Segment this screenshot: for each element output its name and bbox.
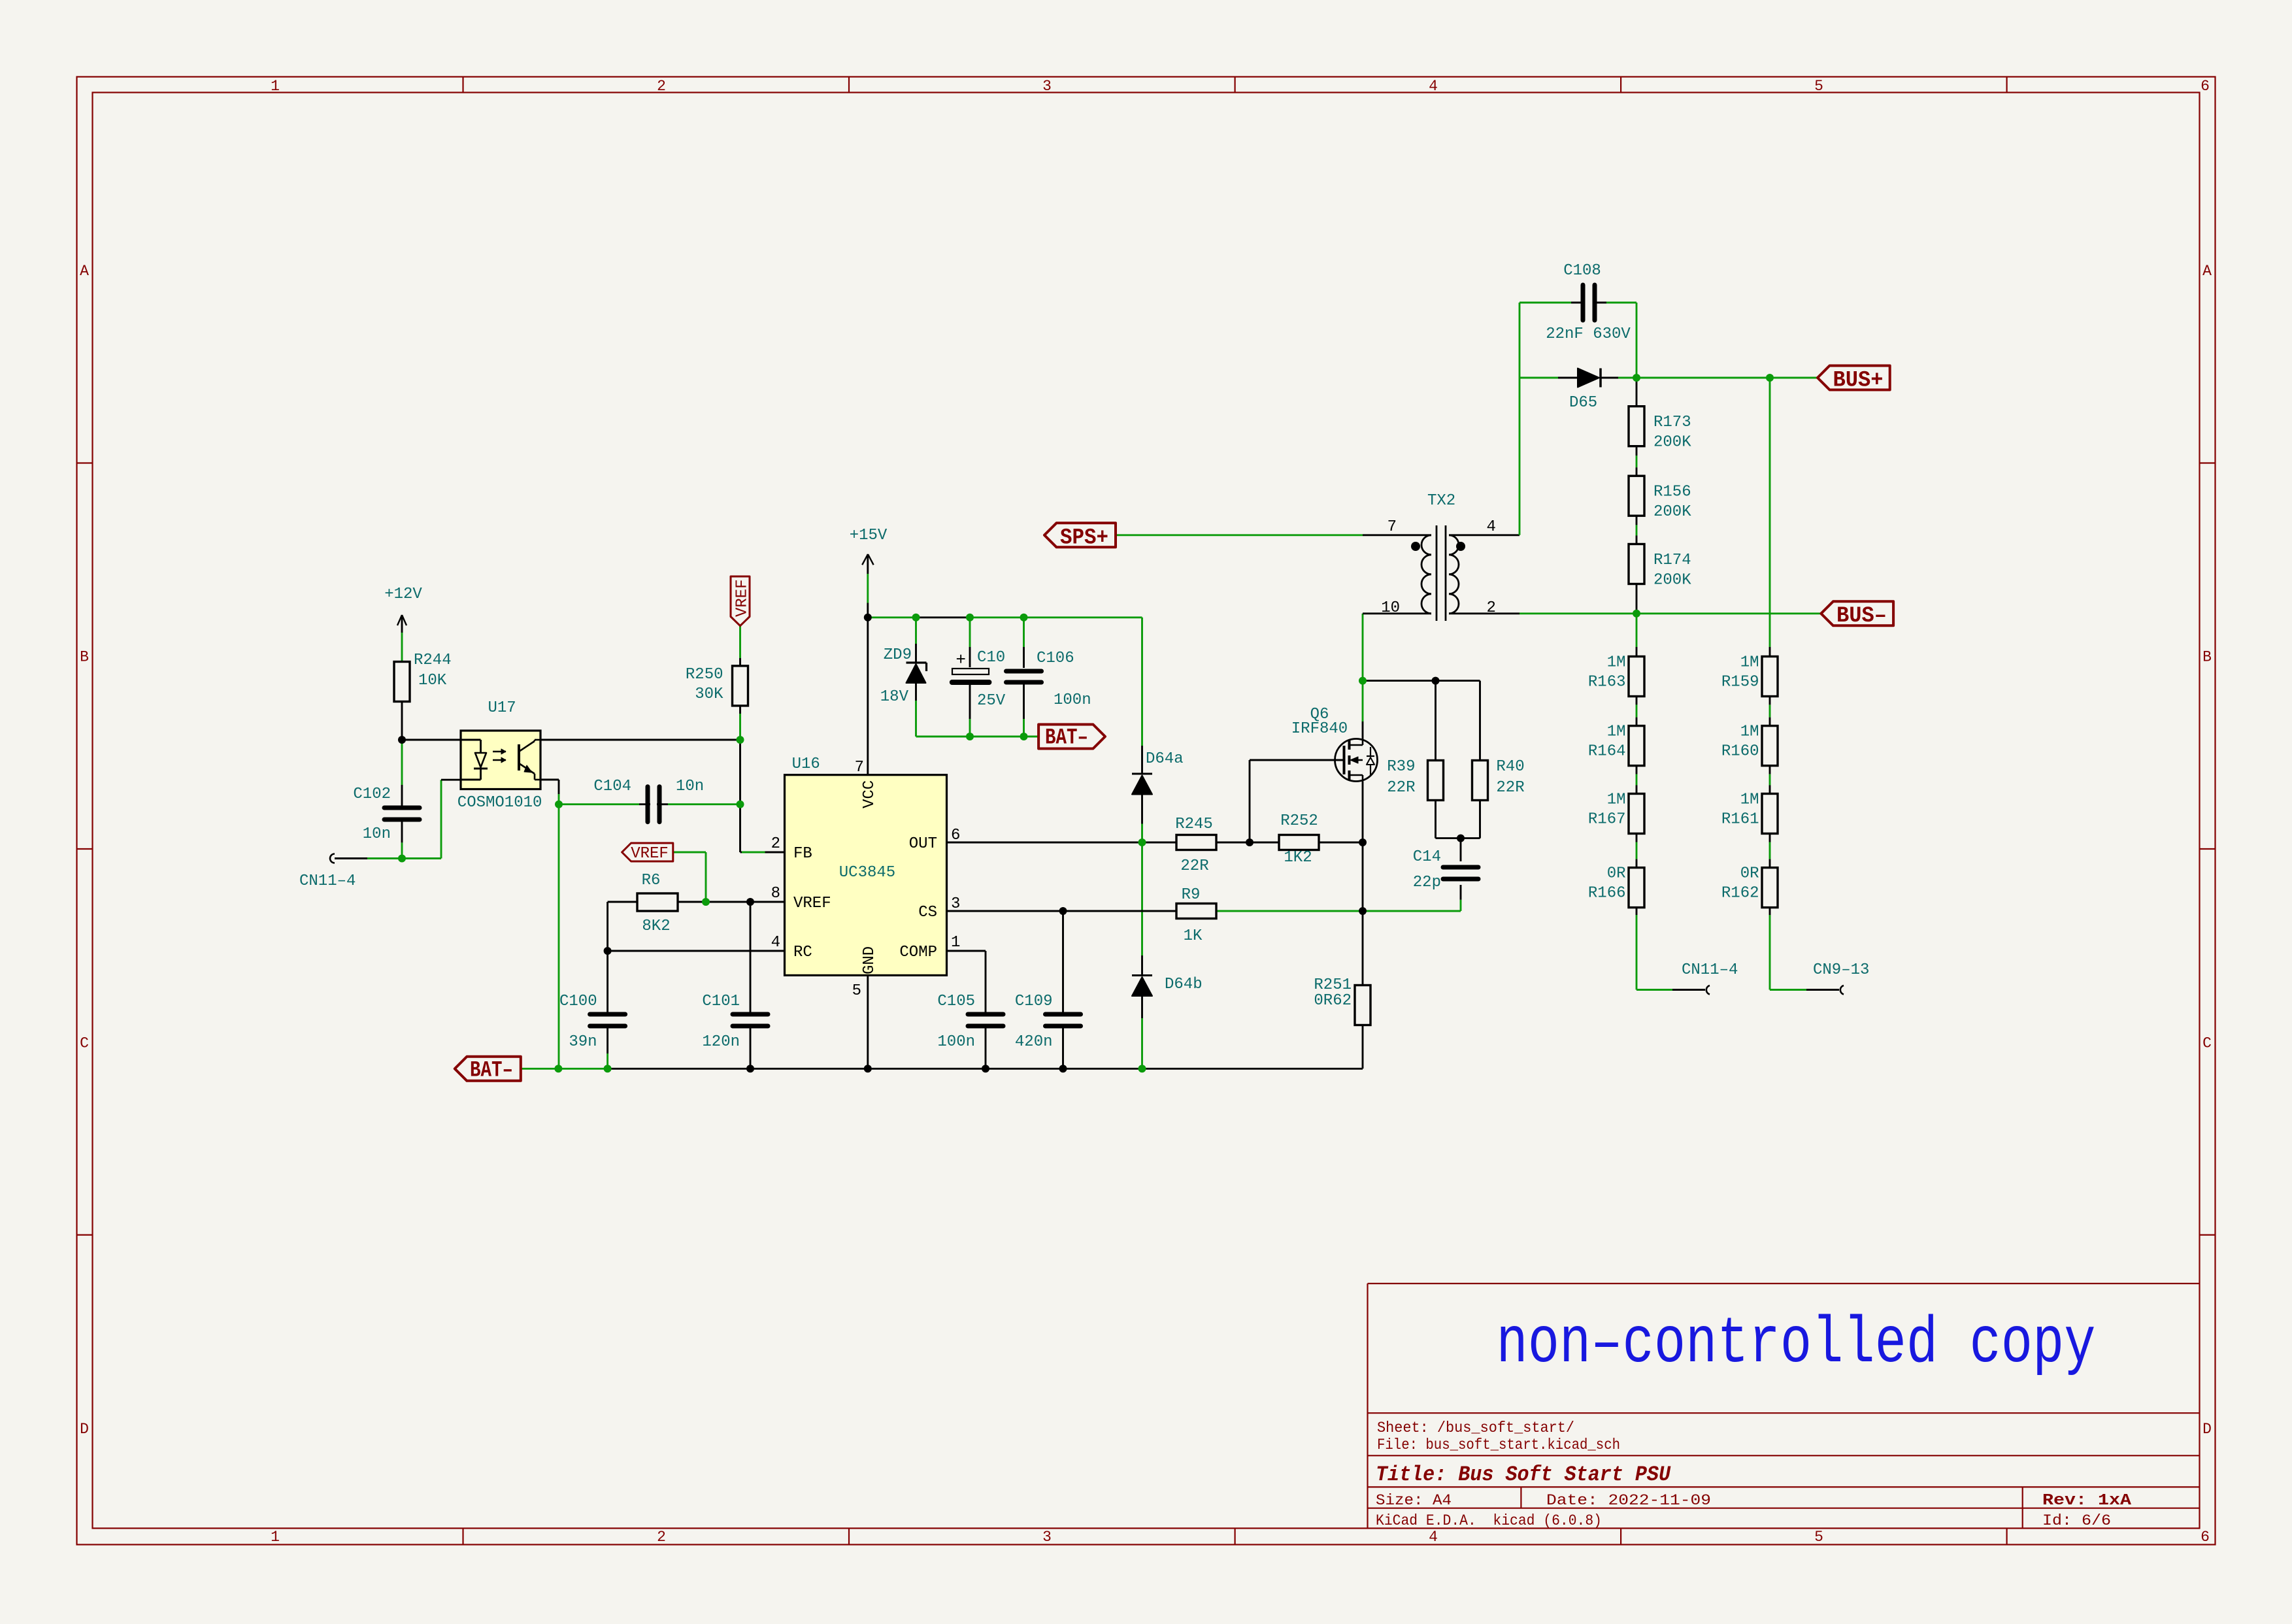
- svg-text:C106: C106: [1037, 650, 1074, 667]
- svg-text:0R: 0R: [1607, 865, 1626, 883]
- svg-text:VCC: VCC: [861, 780, 878, 808]
- svg-text:R166: R166: [1588, 885, 1626, 903]
- svg-text:U17: U17: [488, 699, 516, 717]
- svg-text:1: 1: [951, 934, 960, 952]
- svg-text:0R62: 0R62: [1314, 992, 1352, 1010]
- svg-text:R161: R161: [1721, 811, 1759, 829]
- svg-text:R156: R156: [1653, 484, 1691, 501]
- svg-text:1: 1: [271, 1529, 280, 1546]
- svg-text:R164: R164: [1588, 743, 1626, 761]
- svg-text:KiCad E.D.A. kicad (6.0.8): KiCad E.D.A. kicad (6.0.8): [1376, 1512, 1602, 1529]
- svg-text:D: D: [80, 1421, 89, 1438]
- svg-text:6: 6: [951, 827, 960, 844]
- svg-text:6: 6: [2201, 1529, 2210, 1546]
- svg-text:1M: 1M: [1740, 723, 1759, 741]
- svg-text:CS: CS: [918, 904, 937, 921]
- svg-text:1M: 1M: [1607, 723, 1626, 741]
- svg-text:1K2: 1K2: [1284, 849, 1312, 867]
- svg-text:420n: 420n: [1015, 1033, 1053, 1051]
- svg-text:10n: 10n: [363, 825, 391, 843]
- svg-text:R160: R160: [1721, 743, 1759, 761]
- svg-text:ZD9: ZD9: [884, 646, 912, 664]
- svg-text:+12V: +12V: [384, 586, 422, 603]
- svg-text:C108: C108: [1563, 262, 1601, 280]
- svg-text:C109: C109: [1015, 993, 1053, 1010]
- svg-text:D65: D65: [1569, 394, 1597, 412]
- svg-text:5: 5: [1814, 1529, 1823, 1546]
- svg-text:U16: U16: [792, 755, 820, 773]
- svg-text:D: D: [2202, 1421, 2212, 1438]
- svg-text:R167: R167: [1588, 811, 1626, 829]
- svg-text:30K: 30K: [695, 686, 723, 703]
- svg-text:D64b: D64b: [1165, 976, 1203, 993]
- svg-text:4: 4: [1429, 78, 1438, 95]
- svg-text:200K: 200K: [1653, 572, 1691, 589]
- svg-text:COSMO1010: COSMO1010: [457, 794, 542, 812]
- svg-text:C100: C100: [559, 993, 597, 1010]
- svg-text:C104: C104: [593, 778, 631, 795]
- svg-text:5: 5: [1814, 78, 1823, 95]
- svg-text:Sheet: /bus_soft_start/: Sheet: /bus_soft_start/: [1377, 1419, 1574, 1436]
- svg-text:22p: 22p: [1413, 874, 1441, 891]
- svg-text:1K: 1K: [1184, 927, 1203, 945]
- svg-text:R173: R173: [1653, 414, 1691, 431]
- svg-text:C105: C105: [937, 993, 975, 1010]
- svg-text:2: 2: [1487, 599, 1496, 617]
- svg-text:4: 4: [1487, 518, 1496, 536]
- svg-text:C: C: [2202, 1035, 2212, 1052]
- svg-text:R250: R250: [686, 666, 723, 684]
- svg-text:8: 8: [771, 885, 780, 903]
- svg-text:R251: R251: [1314, 976, 1352, 994]
- svg-text:1M: 1M: [1607, 791, 1626, 809]
- svg-text:BUS+: BUS+: [1833, 368, 1884, 393]
- svg-text:22R: 22R: [1180, 857, 1208, 875]
- svg-text:D64a: D64a: [1146, 750, 1184, 768]
- svg-text:non–controlled copy: non–controlled copy: [1497, 1308, 2096, 1382]
- svg-text:VREF: VREF: [631, 845, 669, 863]
- svg-text:25V: 25V: [977, 692, 1006, 710]
- svg-text:BAT–: BAT–: [1045, 726, 1088, 751]
- svg-text:8K2: 8K2: [642, 918, 670, 935]
- svg-text:R245: R245: [1175, 816, 1213, 833]
- svg-text:120n: 120n: [702, 1033, 740, 1051]
- svg-text:10K: 10K: [418, 672, 447, 689]
- svg-text:R174: R174: [1653, 552, 1691, 569]
- svg-text:2: 2: [657, 78, 666, 95]
- svg-text:R39: R39: [1387, 758, 1415, 776]
- svg-text:C102: C102: [353, 786, 391, 803]
- svg-text:TX2: TX2: [1427, 492, 1455, 510]
- svg-text:VREF: VREF: [793, 895, 831, 912]
- svg-text:CN11–4: CN11–4: [1682, 961, 1738, 979]
- svg-text:5: 5: [852, 982, 861, 1000]
- svg-text:R40: R40: [1496, 758, 1524, 776]
- svg-text:IRF840: IRF840: [1291, 720, 1348, 738]
- svg-text:1M: 1M: [1607, 654, 1626, 672]
- svg-text:BAT–: BAT–: [470, 1059, 513, 1084]
- svg-text:FB: FB: [793, 845, 812, 863]
- svg-text:10: 10: [1381, 599, 1400, 617]
- svg-text:7: 7: [1387, 518, 1397, 536]
- svg-text:C101: C101: [702, 993, 740, 1010]
- svg-text:Id: 6/6: Id: 6/6: [2042, 1512, 2111, 1529]
- svg-text:1M: 1M: [1740, 791, 1759, 809]
- svg-text:100n: 100n: [937, 1033, 975, 1051]
- svg-text:3: 3: [951, 895, 960, 913]
- svg-text:10n: 10n: [676, 778, 704, 795]
- svg-text:R252: R252: [1280, 812, 1318, 830]
- svg-text:C10: C10: [977, 649, 1005, 667]
- svg-text:OUT: OUT: [909, 835, 937, 853]
- svg-text:+15V: +15V: [850, 527, 888, 544]
- svg-text:R162: R162: [1721, 885, 1759, 903]
- svg-text:22R: 22R: [1387, 779, 1415, 797]
- svg-text:0R: 0R: [1740, 865, 1759, 883]
- svg-text:100n: 100n: [1054, 691, 1091, 709]
- svg-text:22R: 22R: [1496, 779, 1524, 797]
- svg-text:1M: 1M: [1740, 654, 1759, 672]
- svg-text:B: B: [80, 649, 89, 666]
- svg-text:A: A: [2202, 263, 2212, 280]
- svg-text:4: 4: [771, 934, 780, 952]
- svg-text:R159: R159: [1721, 674, 1759, 691]
- svg-text:Title: Bus Soft Start PSU: Title: Bus Soft Start PSU: [1376, 1463, 1671, 1487]
- svg-text:3: 3: [1042, 78, 1052, 95]
- svg-text:R6: R6: [642, 872, 661, 889]
- svg-text:CN11–4: CN11–4: [299, 872, 356, 890]
- svg-text:200K: 200K: [1653, 434, 1691, 452]
- svg-text:UC3845: UC3845: [839, 864, 895, 882]
- svg-text:6: 6: [2201, 78, 2210, 95]
- svg-text:22nF 630V: 22nF 630V: [1546, 325, 1631, 343]
- svg-text:C14: C14: [1413, 848, 1441, 866]
- svg-text:3: 3: [1042, 1529, 1052, 1546]
- svg-text:SPS+: SPS+: [1060, 526, 1108, 551]
- svg-text:Size: A4: Size: A4: [1376, 1492, 1452, 1509]
- svg-text:200K: 200K: [1653, 503, 1691, 521]
- svg-text:B: B: [2202, 649, 2212, 666]
- svg-text:RC: RC: [793, 944, 812, 961]
- svg-text:7: 7: [855, 759, 864, 776]
- svg-text:COMP: COMP: [899, 944, 937, 961]
- svg-text:R9: R9: [1182, 886, 1201, 904]
- svg-text:R244: R244: [414, 652, 452, 669]
- svg-text:4: 4: [1429, 1529, 1438, 1546]
- svg-text:2: 2: [771, 835, 780, 853]
- svg-text:1: 1: [271, 78, 280, 95]
- svg-text:A: A: [80, 263, 89, 280]
- svg-text:File: bus_soft_start.kicad_sch: File: bus_soft_start.kicad_sch: [1377, 1436, 1620, 1453]
- svg-text:39n: 39n: [569, 1033, 597, 1051]
- svg-text:2: 2: [657, 1529, 666, 1546]
- svg-text:18V: 18V: [880, 688, 909, 706]
- svg-text:+: +: [955, 650, 966, 670]
- svg-text:GND: GND: [861, 946, 878, 974]
- svg-text:CN9–13: CN9–13: [1813, 961, 1869, 979]
- svg-text:VREF: VREF: [734, 579, 752, 617]
- svg-text:R163: R163: [1588, 674, 1626, 691]
- svg-text:Date: 2022-11-09: Date: 2022-11-09: [1546, 1492, 1711, 1509]
- svg-text:BUS–: BUS–: [1836, 604, 1887, 629]
- svg-text:Rev: 1xA: Rev: 1xA: [2042, 1492, 2132, 1510]
- svg-text:C: C: [80, 1035, 89, 1052]
